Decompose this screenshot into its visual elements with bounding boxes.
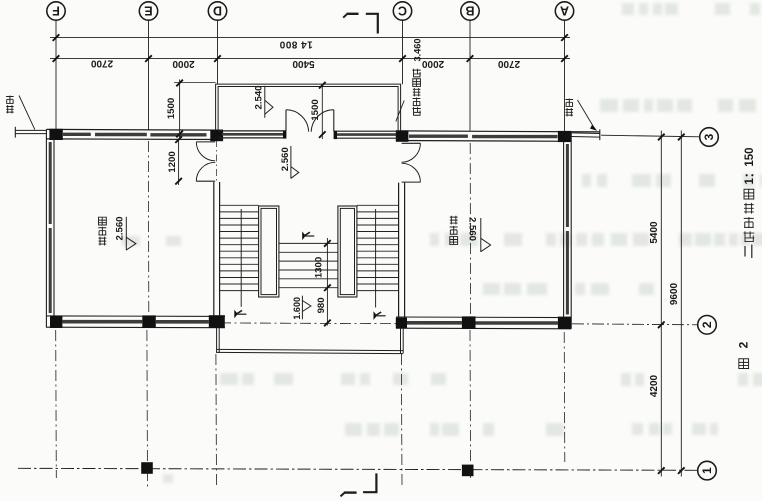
porch balcony outline xyxy=(216,84,401,131)
svg-text:2000: 2000 xyxy=(421,58,444,69)
top exterior wall C-A with windows xyxy=(396,131,600,132)
column F/3 xyxy=(49,129,62,140)
grid dash line E in room xyxy=(147,141,149,315)
grid dash line B in room xyxy=(469,143,471,315)
left stair stringer xyxy=(240,209,242,307)
svg-text:2700: 2700 xyxy=(90,57,113,68)
column at E/1 xyxy=(141,462,153,474)
figure number tu 2 xyxy=(739,359,749,369)
grid line 2 extension xyxy=(572,324,698,325)
grid stem E xyxy=(148,20,150,130)
svg-text:1200: 1200 xyxy=(167,151,178,172)
grid stem D xyxy=(217,20,219,84)
svg-text:4200: 4200 xyxy=(649,374,660,397)
railing west xyxy=(15,129,46,131)
grid dash line B lower xyxy=(469,330,472,478)
dim 1200 at left door xyxy=(178,139,180,185)
bottom wall right room (grid 2) xyxy=(396,316,571,319)
west exterior wall with window xyxy=(45,129,47,327)
column D/3 xyxy=(210,130,223,141)
svg-text:2.560: 2.560 xyxy=(466,217,477,241)
right dim line outer (9600) xyxy=(680,131,682,477)
section mark 1 bottom xyxy=(363,473,376,492)
grid line 3 extension xyxy=(601,135,700,137)
svg-text:1500: 1500 xyxy=(166,98,177,119)
grid bubble E xyxy=(139,2,157,20)
railing east xyxy=(571,132,600,135)
grid stem A xyxy=(564,20,566,131)
svg-text:1：150: 1：150 xyxy=(744,147,756,184)
dim 1500 inside porch xyxy=(321,85,323,140)
left room door (swing into room) xyxy=(196,141,215,143)
svg-text:5400: 5400 xyxy=(292,58,315,69)
title erceng pingmiantu 1:150 xyxy=(744,189,754,199)
porch north wall w/ door gap xyxy=(218,130,286,132)
left stair well rail xyxy=(259,206,279,297)
column C/2 xyxy=(396,318,407,329)
right dim line inner (5400/4200) xyxy=(660,131,662,477)
svg-text:980: 980 xyxy=(316,297,327,313)
column A/3 xyxy=(558,131,571,142)
hall south-east stub wall xyxy=(400,328,402,353)
stair arrow down (left flight) xyxy=(234,310,238,319)
right stair treads xyxy=(357,205,399,290)
left stair treads xyxy=(220,205,259,290)
grid bubble B xyxy=(461,2,479,20)
svg-text:1: 1 xyxy=(700,467,714,474)
svg-text:1.600: 1.600 xyxy=(292,297,302,320)
svg-text:2.540: 2.540 xyxy=(253,85,264,109)
stair hall east wall (grid C) xyxy=(398,183,400,318)
grid line 1 xyxy=(18,468,698,470)
column B/2 xyxy=(462,316,476,329)
grid dash line D lower xyxy=(215,354,218,487)
svg-text:1300: 1300 xyxy=(314,257,325,278)
grid dash line E lower xyxy=(146,330,149,487)
grid bubble F xyxy=(47,2,65,20)
svg-text:2.560: 2.560 xyxy=(114,216,125,240)
hall south rail xyxy=(217,349,404,350)
svg-text:E: E xyxy=(144,4,152,18)
right stair stringer xyxy=(375,209,377,308)
door jamb block left xyxy=(283,131,286,139)
svg-text:2700: 2700 xyxy=(497,58,520,69)
bottom wall left room (grid 2) xyxy=(46,315,225,318)
svg-text:A: A xyxy=(560,4,569,18)
svg-text:2: 2 xyxy=(737,341,751,348)
svg-text:B: B xyxy=(465,4,474,18)
column A/2 xyxy=(558,317,571,329)
entrance double door xyxy=(285,110,287,131)
column F/2 xyxy=(50,316,62,328)
right room label huodongshi 2.560 xyxy=(450,216,458,225)
svg-text:14 800: 14 800 xyxy=(279,39,313,50)
grid stem C xyxy=(402,21,404,84)
svg-text:9600: 9600 xyxy=(669,282,680,305)
grid bubble A xyxy=(555,2,573,20)
left room label huodongshi 2.560 xyxy=(98,237,106,246)
grid bubble 2 xyxy=(698,316,717,335)
grid stem F xyxy=(55,20,57,130)
grid dash line F lower xyxy=(55,330,58,478)
svg-text:2.560: 2.560 xyxy=(280,147,291,171)
svg-text:D: D xyxy=(213,4,222,18)
grid dash line C lower xyxy=(400,354,403,487)
stair arrow down (right flight) xyxy=(374,311,378,320)
svg-text:C: C xyxy=(398,4,407,18)
svg-text:3: 3 xyxy=(702,133,716,140)
grid line 2 through stair hall xyxy=(220,322,400,325)
dimension line 14800 xyxy=(50,37,570,39)
grid bubble C xyxy=(393,2,411,20)
top exterior wall F-D with windows xyxy=(46,128,223,131)
column E/2 xyxy=(142,315,156,328)
svg-text:1500: 1500 xyxy=(310,99,321,120)
grid dash line A lower xyxy=(563,332,566,462)
window sill note 3.460 xyxy=(412,107,420,115)
svg-text:5400: 5400 xyxy=(649,221,660,244)
railing label east xyxy=(565,98,573,106)
right stair well rail xyxy=(338,206,357,297)
column D/2 xyxy=(209,315,225,328)
svg-text:3.460: 3.460 xyxy=(412,39,422,62)
svg-text:2: 2 xyxy=(700,321,714,328)
stair hall west wall (grid D) xyxy=(213,182,215,316)
grid stem B xyxy=(469,20,471,131)
dimension line row 2700/2000/5400/2000/2700 xyxy=(50,58,570,60)
stair arrow up (mid flight) xyxy=(302,232,306,241)
east exterior wall with window xyxy=(570,132,572,329)
middle flight treads xyxy=(279,243,338,287)
grid bubble D xyxy=(208,2,226,20)
section mark 1 top xyxy=(347,13,359,15)
grid bubble 3 xyxy=(700,128,719,147)
grid bubble 1 xyxy=(698,461,717,480)
svg-text:2000: 2000 xyxy=(172,58,195,69)
railing label west xyxy=(6,95,14,103)
column at B/1 xyxy=(462,465,474,477)
grid dash line D in door/hall xyxy=(215,140,217,182)
svg-text:F: F xyxy=(52,4,60,18)
hall south-west stub wall xyxy=(216,328,218,353)
porch extension line left xyxy=(174,82,216,84)
right room door (swing into room) xyxy=(402,142,421,144)
column C/3 xyxy=(396,130,409,141)
door jamb block right xyxy=(334,131,337,139)
dim 1500 left of porch xyxy=(179,80,181,140)
dim 1300 mid flight xyxy=(326,238,328,326)
